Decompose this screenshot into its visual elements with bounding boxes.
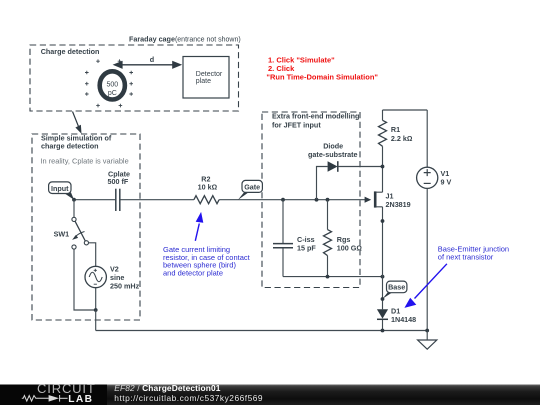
arrow from charge box to simple box: [73, 112, 82, 134]
resistor R2: [194, 174, 219, 203]
blue note: gate resistor annotation: [163, 212, 251, 277]
svg-text:Detector: Detector: [196, 71, 223, 78]
svg-text:charge detection: charge detection: [41, 142, 99, 151]
extra front-end dashed box: [262, 112, 360, 288]
svg-text:V1: V1: [441, 169, 450, 178]
svg-text:EF82 / ChargeDetection01: EF82 / ChargeDetection01: [114, 383, 220, 393]
capacitor Cplate: [108, 169, 130, 211]
svg-text:"Run Time-Domain Simulation": "Run Time-Domain Simulation": [266, 72, 378, 81]
svg-text:500: 500: [106, 82, 118, 89]
svg-text:15 pF: 15 pF: [297, 244, 316, 253]
svg-text:d: d: [150, 55, 154, 64]
svg-text:for JFET input: for JFET input: [272, 121, 321, 130]
source V1: [417, 110, 452, 331]
diode gate-substrate branch: [308, 142, 382, 200]
wire down to ground rail: [95, 310, 97, 331]
node dot V2 bottom: [94, 308, 98, 312]
capacitor C-iss: [273, 200, 316, 277]
wire input to Cplate: [74, 199, 115, 201]
node: junction dot input: [72, 198, 76, 202]
node flag Base: [383, 281, 407, 299]
svg-text:of next transistor: of next transistor: [438, 252, 494, 261]
switch SW1: [54, 200, 89, 249]
bottom rail: [96, 330, 428, 332]
svg-text:http://circuitlab.com/c537ky26: http://circuitlab.com/c537ky266f569: [114, 393, 263, 403]
bottom wire of extra box: [283, 276, 383, 278]
detector plate box: [183, 57, 229, 99]
svg-text:1N4148: 1N4148: [391, 315, 416, 324]
svg-text:Rgs: Rgs: [337, 235, 351, 244]
source wire of JFET down: [382, 207, 384, 309]
diode D1 1N4148: [377, 307, 416, 331]
svg-text:R1: R1: [391, 125, 400, 134]
source V2: [85, 265, 140, 291]
JFET J1 2N3819: [365, 191, 411, 209]
wire V2 bottom: [95, 288, 97, 310]
svg-text:2N3819: 2N3819: [386, 200, 411, 209]
distance arrow d: [113, 55, 183, 69]
wire Cplate to R2: [120, 199, 193, 201]
wire switch left contact down: [74, 249, 96, 310]
svg-text:500 fF: 500 fF: [108, 177, 129, 186]
svg-text:LAB: LAB: [68, 394, 93, 405]
node flag Gate: [238, 180, 263, 200]
svg-text:9 V: 9 V: [441, 178, 452, 187]
svg-text:gate-substrate: gate-substrate: [308, 150, 358, 159]
Faraday cage dashed box: [30, 45, 239, 111]
charged sphere 500 pC: [100, 71, 125, 99]
svg-text:SW1: SW1: [54, 230, 70, 239]
junction dots on gate wire: [281, 198, 285, 202]
svg-text:Gate: Gate: [244, 182, 260, 191]
simple simulation dashed box: [32, 134, 140, 320]
svg-text:Input: Input: [51, 184, 69, 193]
svg-text:Base: Base: [388, 283, 405, 292]
svg-text:and detector plate: and detector plate: [163, 268, 223, 277]
svg-text:pC: pC: [108, 90, 117, 97]
node dots bottom extra wire: [326, 275, 330, 279]
blue note: base-emitter annotation: [404, 245, 509, 308]
node flag Input: [49, 182, 74, 200]
logo CIRCUIT LAB: [22, 381, 96, 405]
resistor R1: [379, 110, 413, 146]
svg-text:Extra front-end modelling: Extra front-end modelling: [272, 112, 359, 121]
top wire: [383, 109, 428, 111]
svg-text:2.2 kΩ: 2.2 kΩ: [391, 134, 413, 143]
plus signs around sphere: [85, 59, 133, 107]
svg-text:plate: plate: [196, 78, 211, 85]
drain wire with dot: [382, 146, 384, 192]
svg-text:250 mHz: 250 mHz: [110, 281, 140, 290]
resistor Rgs: [324, 200, 362, 277]
svg-text:Charge detection: Charge detection: [41, 47, 100, 56]
wire R2 to JFET gate: [219, 199, 366, 201]
svg-text:Faraday cage(entrance not show: Faraday cage(entrance not shown): [129, 35, 241, 44]
wire switch right contact to V2: [89, 243, 96, 266]
svg-text:In reality, Cplate is variable: In reality, Cplate is variable: [41, 157, 129, 166]
svg-text:10 kΩ: 10 kΩ: [198, 183, 218, 192]
svg-text:100 GΩ: 100 GΩ: [337, 244, 362, 253]
ground: [418, 331, 437, 350]
